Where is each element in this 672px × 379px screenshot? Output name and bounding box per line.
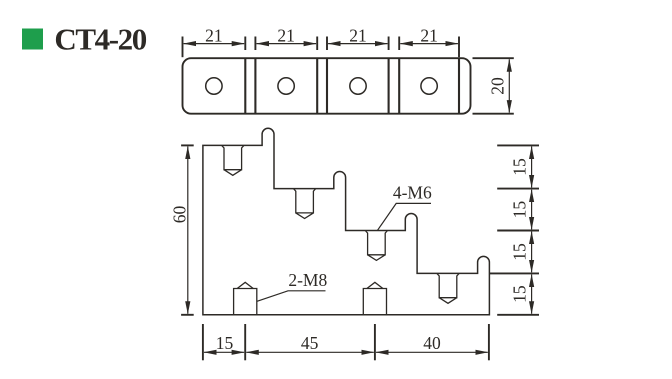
dim 21 #1 ticks [182, 37, 184, 58]
dim 21 #3 ticks [326, 37, 328, 51]
hole circle 4 [421, 78, 437, 94]
M6 hole 1 [222, 145, 244, 175]
top view right end line [458, 58, 460, 113]
front view outline [203, 128, 490, 314]
top view bar outline [183, 58, 471, 113]
svg-text:15: 15 [510, 243, 530, 261]
dim 60 line [187, 147, 189, 314]
leader 4-M6 [378, 203, 432, 230]
dim 21 #3 line [328, 43, 387, 45]
svg-text:4-M6: 4-M6 [393, 183, 432, 203]
right stack line 3 [497, 230, 539, 232]
bottom dim tick 3 [374, 324, 376, 360]
right stack line 2 [497, 188, 539, 190]
M6 hole 3 [365, 231, 387, 261]
separator pair 1 [244, 58, 246, 113]
dim 20 line [508, 59, 510, 112]
dim 15 bottom line [204, 351, 244, 353]
dim 21 #2 line [257, 43, 317, 45]
dim 21 #1 line [184, 43, 245, 45]
svg-text:15: 15 [216, 333, 234, 353]
svg-text:15: 15 [510, 285, 530, 303]
svg-text:21: 21 [277, 25, 295, 45]
svg-text:15: 15 [510, 158, 530, 176]
dim 21 #2 ticks [254, 37, 256, 51]
svg-text:45: 45 [301, 333, 319, 353]
bottom dim tick 1 [202, 324, 204, 360]
dim 21 #4 ticks [398, 37, 400, 51]
dim 60 top tick [181, 144, 194, 146]
title green square [22, 29, 43, 50]
dim 15 right #1 line [531, 147, 533, 188]
svg-text:21: 21 [349, 25, 367, 45]
dim 60 bottom tick [181, 314, 194, 316]
right stack line 1 [497, 144, 539, 146]
svg-text:21: 21 [420, 25, 438, 45]
dim 15 right #3 line [531, 232, 533, 273]
svg-text:2-M8: 2-M8 [288, 270, 327, 290]
right stack line 5 [497, 314, 539, 316]
svg-text:15: 15 [510, 201, 530, 219]
separator pair 3 [388, 58, 390, 113]
leader 2-M8 [257, 291, 326, 302]
svg-text:CT4-20: CT4-20 [54, 21, 146, 56]
svg-text:20: 20 [488, 77, 508, 95]
M6 hole 2 [294, 189, 316, 219]
hole circle 1 [206, 78, 222, 94]
right stack line 4 [489, 272, 539, 274]
dim 40 bottom line [376, 351, 488, 353]
bottom dim tick 4 [488, 324, 490, 360]
hole circle 2 [278, 78, 294, 94]
bottom dim tick 2 [244, 324, 246, 360]
dim 15 right #4 line [531, 275, 533, 314]
M6 hole 4 [437, 273, 459, 303]
svg-text:40: 40 [423, 333, 441, 353]
separator pair 2 [316, 58, 318, 113]
hole circle 3 [350, 78, 366, 94]
svg-text:60: 60 [170, 206, 190, 224]
M8 hole 2 [363, 282, 386, 315]
dim 15 right #2 line [531, 190, 533, 230]
dim 20 extension lines [473, 57, 514, 59]
dim 45 bottom line [246, 351, 373, 353]
M8 hole 1 [234, 282, 257, 315]
dim 21 #4 line [400, 43, 458, 45]
svg-text:21: 21 [205, 25, 223, 45]
